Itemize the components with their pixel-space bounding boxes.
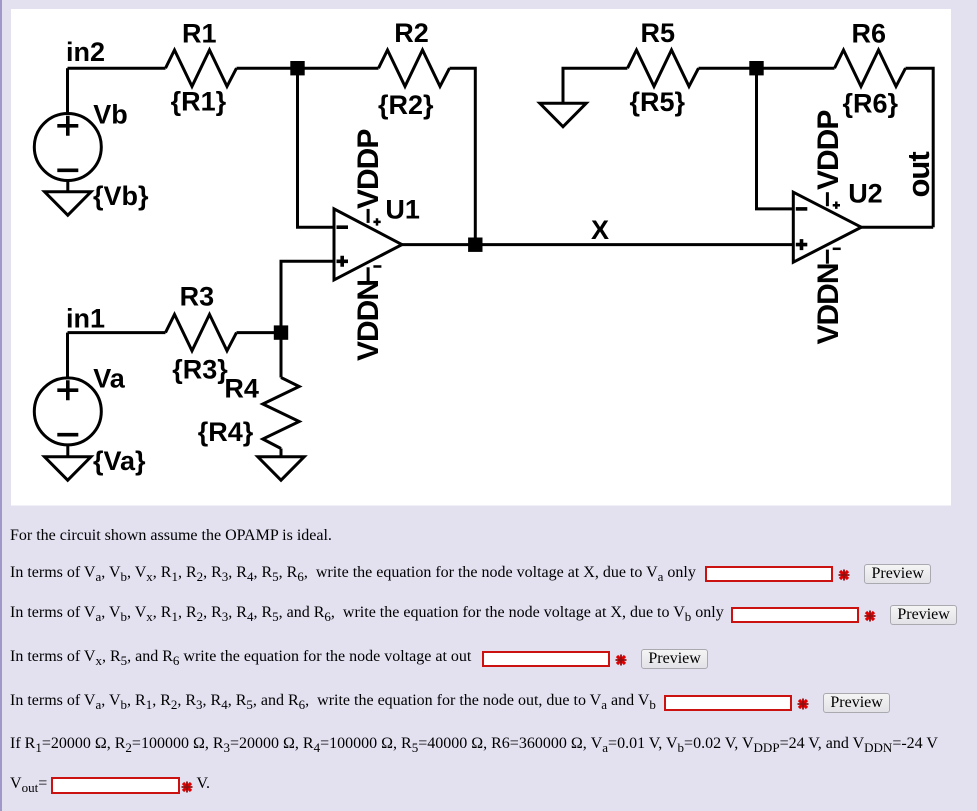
svg-text:R3: R3 [180,282,215,312]
svg-text:U2: U2 [848,179,883,209]
svg-text:R6: R6 [852,18,887,48]
svg-text:VDDP: VDDP [352,130,385,209]
svg-text:X: X [591,215,609,245]
svg-text:{R4}: {R4} [198,417,254,447]
svg-text:R1: R1 [182,19,217,49]
svg-text:Vb: Vb [93,99,128,129]
svg-text:R4: R4 [224,374,259,404]
svg-text:VDDN: VDDN [352,280,385,361]
svg-text:{R5}: {R5} [630,87,686,117]
svg-text:{Vb}: {Vb} [93,181,149,211]
svg-text:{R1}: {R1} [171,87,227,117]
svg-text:VDDN: VDDN [812,263,845,344]
svg-text:{R3}: {R3} [172,355,228,385]
svg-text:{R6}: {R6} [843,88,899,118]
svg-text:VDDP: VDDP [812,111,845,190]
svg-text:{Va}: {Va} [93,446,146,476]
svg-text:in2: in2 [66,37,105,67]
svg-text:in1: in1 [66,303,105,333]
svg-text:R5: R5 [641,18,676,48]
svg-text:{R2}: {R2} [378,90,434,120]
svg-text:U1: U1 [385,195,420,225]
svg-text:Va: Va [93,364,126,394]
svg-text:R2: R2 [394,18,429,48]
svg-text:out: out [901,152,936,198]
